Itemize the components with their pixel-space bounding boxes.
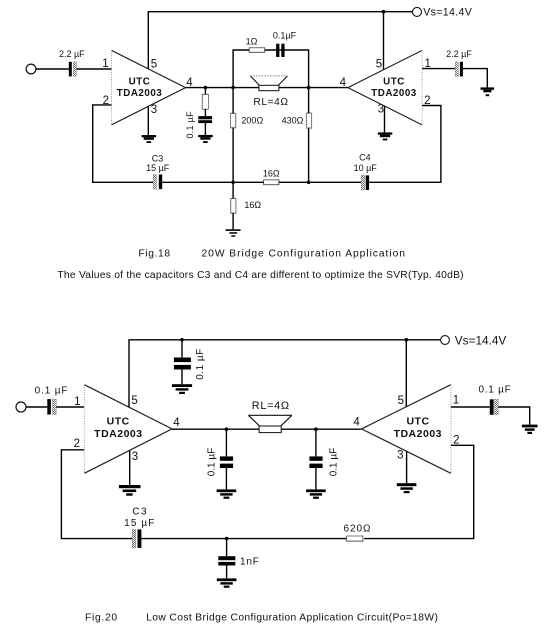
- wire pin5 U1 riser: [147, 12, 149, 69]
- svg-text:15 µF: 15 µF: [124, 518, 155, 529]
- svg-text:3: 3: [132, 451, 138, 463]
- node junction left speaker branch: [231, 86, 235, 90]
- wire pin4 rail (U3 apex to U4 apex): [172, 428, 362, 430]
- wire top RC feedback line: [233, 49, 310, 51]
- wire U2 pin2 loop: [369, 106, 441, 183]
- node junction right speaker branch: [307, 86, 311, 90]
- svg-text:4: 4: [173, 417, 180, 429]
- ground (output, bottom-right): [522, 425, 538, 434]
- wire C1 to pin1 U1: [76, 68, 111, 70]
- svg-text:16Ω: 16Ω: [244, 200, 261, 210]
- node junction 1nF branch: [225, 537, 229, 541]
- svg-text:200Ω: 200Ω: [241, 116, 263, 126]
- capacitor C17 1nF: [218, 556, 259, 567]
- wire U1 pin3 down: [147, 106, 149, 135]
- op-amp U4 UTC TDA2003 (bottom-right): [362, 385, 451, 474]
- wire U1 pin2 loop: [93, 105, 154, 182]
- wire bypass cap branch: [181, 340, 183, 358]
- resistor R6 16 ohm (vertical to ground): [231, 198, 262, 213]
- capacitor C2 2.2uF (output): [446, 49, 472, 77]
- svg-text:The Values of the capacitors C: The Values of the capacitors C3 and C4 a…: [57, 270, 463, 281]
- svg-text:1: 1: [453, 395, 459, 407]
- op-amp U3 UTC TDA2003 (bottom-left): [84, 385, 172, 474]
- svg-text:10 µF: 10 µF: [354, 163, 378, 173]
- wire Vs top rail: [148, 11, 413, 13]
- svg-text:Vs=14.4V: Vs=14.4V: [455, 333, 507, 347]
- svg-text:2.2 µF: 2.2 µF: [446, 49, 472, 59]
- wire 1nF branch down: [226, 539, 228, 557]
- wire C11 to pin1 U3: [56, 406, 84, 408]
- wire U4 pin1 to C15: [451, 406, 490, 408]
- ground (C14): [306, 489, 326, 498]
- node junction RC branch: [204, 86, 208, 90]
- svg-text:0.1 µF: 0.1 µF: [329, 448, 340, 477]
- capacitor C13 0.1uF (left branch): [207, 448, 234, 477]
- ground U3 pin3: [119, 485, 141, 496]
- svg-text:5: 5: [151, 59, 157, 71]
- speaker RL=4ohm (top): [250, 76, 288, 108]
- svg-text:1Ω: 1Ω: [246, 37, 258, 47]
- resistor R1 (series RC at pin4): [202, 94, 208, 109]
- svg-text:3: 3: [151, 104, 157, 116]
- capacitor C4 10uF: [354, 153, 378, 191]
- svg-text:15 µF: 15 µF: [146, 163, 170, 173]
- op-amp U2 UTC TDA2003 (top-right): [348, 50, 422, 125]
- wire U2 pin5 riser: [383, 12, 385, 70]
- capacitor C16 15uF (C3 of fig.20): [124, 506, 155, 548]
- svg-text:C3: C3: [152, 153, 164, 163]
- op-amp U1 UTC TDA2003 (top-left): [112, 50, 186, 125]
- wire U4 pin3 down: [406, 451, 408, 483]
- wire U2 pin1 to C2: [422, 68, 455, 70]
- wire left branch / C13: [225, 429, 227, 456]
- svg-text:TDA2003: TDA2003: [117, 88, 162, 99]
- ground (R6, three-line): [226, 229, 241, 236]
- ground U1 pin3: [142, 135, 157, 143]
- wire left speaker branch up: [232, 50, 234, 88]
- svg-text:1: 1: [102, 58, 108, 70]
- svg-text:TDA2003: TDA2003: [371, 88, 416, 99]
- wire C12 to ground: [181, 370, 183, 385]
- capacitor C12 0.1uF (supply bypass): [174, 348, 206, 380]
- svg-text:Low Cost Bridge Configuration: Low Cost Bridge Configuration Applicatio…: [146, 612, 438, 623]
- resistor R2 1 ohm: [246, 37, 265, 53]
- svg-text:0.1 µF: 0.1 µF: [195, 348, 206, 380]
- svg-text:0.1 µF: 0.1 µF: [478, 384, 511, 395]
- terminal Vs (top circuit): [413, 7, 422, 16]
- svg-text:2.2 µF: 2.2 µF: [59, 49, 85, 59]
- ground (C13): [217, 489, 237, 498]
- resistor R3 200 ohm: [231, 113, 264, 128]
- wire Vs top rail (bottom circuit): [128, 339, 440, 341]
- capacitor C5 0.1uF (series RC): [185, 111, 212, 139]
- input terminal (bottom circuit): [16, 402, 26, 412]
- svg-text:1nF: 1nF: [240, 557, 260, 568]
- speaker RL=4ohm (bottom): [248, 400, 292, 433]
- svg-text:RL=4Ω: RL=4Ω: [252, 400, 290, 412]
- svg-text:UTC: UTC: [107, 415, 130, 427]
- svg-text:0.1 µF: 0.1 µF: [35, 385, 69, 396]
- wire C15 to output corner: [498, 407, 530, 425]
- wire U4 pin5 riser: [405, 340, 407, 407]
- wire input to C1: [36, 68, 69, 70]
- ground U4 pin3: [397, 483, 417, 493]
- node junction U4 pin5: [405, 338, 409, 342]
- wire U2 pin3 down: [384, 106, 386, 132]
- svg-text:C3: C3: [132, 506, 148, 517]
- wire pin4 rail (U1 apex to U2 apex): [186, 87, 348, 89]
- svg-text:C4: C4: [359, 153, 371, 163]
- wire U3 pin2 loop: [61, 450, 132, 539]
- wire feedback rail middle: [233, 181, 264, 183]
- wire U3 pin3 down: [129, 450, 131, 485]
- capacitor C14 0.1uF (right branch): [309, 448, 339, 477]
- wire R1 to C5: [204, 109, 206, 116]
- wire U4 pin2 loop: [364, 445, 474, 538]
- svg-text:5: 5: [398, 395, 404, 407]
- wire left branch (node4 to C3 rail): [232, 88, 234, 114]
- wire R6 branch: [232, 182, 234, 198]
- svg-text:5: 5: [376, 59, 382, 71]
- svg-text:RL=4Ω: RL=4Ω: [253, 97, 288, 108]
- svg-text:0.1µF: 0.1µF: [273, 31, 297, 41]
- wire C3 to left junction: [162, 181, 233, 183]
- svg-text:Vs=14.4V: Vs=14.4V: [423, 7, 472, 19]
- svg-text:3: 3: [378, 104, 384, 116]
- svg-text:UTC: UTC: [383, 76, 405, 87]
- wire right branch (node4 to C4 rail): [308, 88, 310, 114]
- svg-text:620Ω: 620Ω: [344, 524, 372, 535]
- svg-text:UTC: UTC: [129, 76, 151, 87]
- svg-text:16Ω: 16Ω: [263, 168, 280, 178]
- wire RC branch down: [204, 88, 206, 95]
- svg-text:0.1 µF: 0.1 µF: [185, 111, 195, 139]
- capacitor C3 15uF: [146, 153, 170, 189]
- wire input to C11: [26, 406, 47, 408]
- capacitor C15 0.1uF (output): [478, 384, 511, 414]
- wire right speaker branch up: [308, 50, 310, 88]
- svg-text:0.1 µF: 0.1 µF: [207, 448, 218, 477]
- wire C2 to output corner: [463, 69, 487, 88]
- svg-text:Fig.18: Fig.18: [138, 248, 170, 259]
- svg-text:5: 5: [131, 395, 137, 407]
- svg-text:20W Bridge Configuration Appli: 20W Bridge Configuration Application: [202, 248, 406, 259]
- svg-text:2: 2: [74, 438, 80, 450]
- ground (bypass cap): [172, 384, 192, 394]
- node junction left 0.1uF branch: [225, 427, 229, 431]
- resistor R4 430 ohm: [282, 113, 312, 128]
- svg-text:UTC: UTC: [406, 415, 429, 427]
- svg-text:3: 3: [397, 450, 403, 462]
- node junction feedback rail left: [231, 181, 235, 185]
- wire C17 to ground: [226, 566, 228, 579]
- svg-text:TDA2003: TDA2003: [94, 428, 142, 440]
- node junction bypass cap: [180, 338, 184, 342]
- wire U3 pin5 riser: [128, 340, 130, 407]
- svg-text:1: 1: [74, 396, 80, 408]
- resistor R5 16 ohm (horizontal): [263, 168, 280, 184]
- ground U2 pin3: [378, 132, 393, 140]
- node junction right 0.1uF branch: [314, 427, 318, 431]
- ground (C17 1nF): [217, 578, 237, 587]
- node junction top rail / U2 pin5: [382, 10, 386, 14]
- resistor R7 620 ohm: [344, 524, 372, 542]
- capacitor C11 0.1uF (input): [35, 385, 69, 414]
- capacitor C6 0.1uF (zobel): [273, 31, 297, 57]
- svg-text:430Ω: 430Ω: [282, 116, 304, 126]
- ground (series RC): [198, 135, 213, 143]
- wire right branch / C14: [315, 429, 317, 456]
- svg-text:TDA2003: TDA2003: [394, 428, 442, 440]
- svg-text:Fig.20: Fig.20: [85, 612, 118, 623]
- wire C5 to ground: [204, 123, 206, 135]
- terminal Vs (bottom circuit): [441, 336, 450, 345]
- wire C16 to 1nF junction: [141, 538, 346, 540]
- svg-text:4: 4: [353, 417, 360, 429]
- ground (output, top-right): [481, 87, 495, 96]
- input terminal (top circuit): [26, 64, 36, 74]
- capacitor C1 2.2uF (input): [59, 49, 85, 76]
- node junction feedback rail right: [307, 181, 311, 185]
